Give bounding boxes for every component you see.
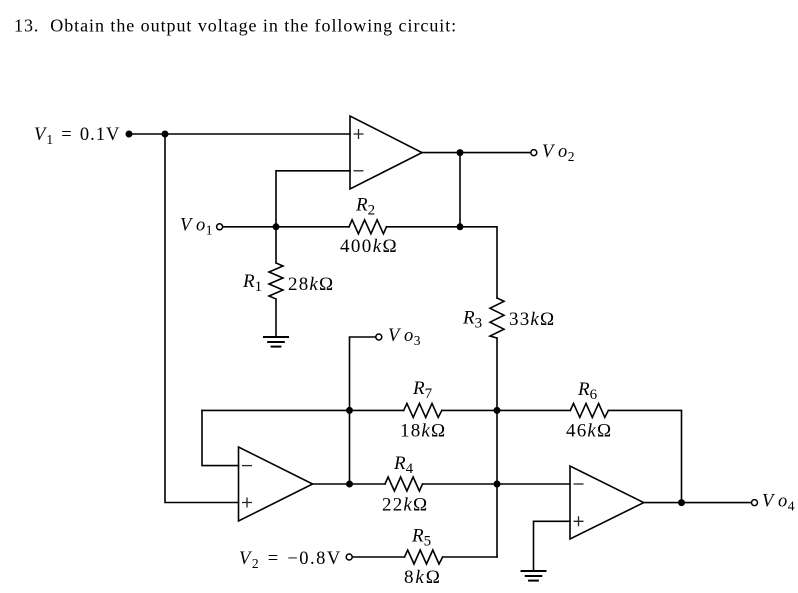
svg-text:46kΩ: 46kΩ: [566, 421, 612, 442]
svg-text:R7: R7: [412, 378, 433, 402]
svg-text:28kΩ: 28kΩ: [288, 274, 334, 295]
svg-text:R2: R2: [355, 195, 375, 219]
svg-text:R3: R3: [462, 308, 482, 332]
svg-text:V1 = 0.1V: V1 = 0.1V: [34, 125, 120, 147]
svg-text:400kΩ: 400kΩ: [340, 236, 398, 257]
svg-text:R5: R5: [411, 526, 431, 550]
svg-text:18kΩ: 18kΩ: [400, 421, 446, 442]
svg-text:V o4: V o4: [762, 492, 795, 514]
svg-text:V o3: V o3: [388, 326, 421, 348]
svg-text:V o1: V o1: [180, 216, 213, 238]
svg-text:33kΩ: 33kΩ: [509, 309, 555, 330]
svg-text:V2 = −0.8V: V2 = −0.8V: [239, 549, 342, 571]
svg-text:13. Obtain the output voltage: 13. Obtain the output voltage in the fol…: [14, 16, 457, 36]
svg-text:22kΩ: 22kΩ: [382, 495, 428, 516]
svg-text:R1: R1: [242, 271, 262, 295]
svg-text:8kΩ: 8kΩ: [404, 567, 442, 588]
svg-text:R6: R6: [577, 379, 598, 403]
svg-text:R4: R4: [393, 453, 414, 477]
svg-text:V o2: V o2: [542, 142, 575, 164]
